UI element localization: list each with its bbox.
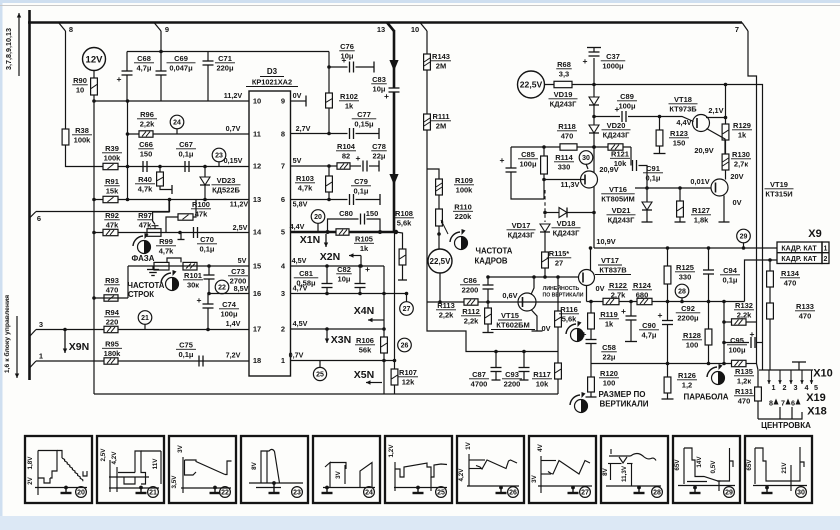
label C74	[219, 300, 239, 318]
power node 22,5V kadr	[428, 249, 452, 273]
svg-text:1k: 1k	[360, 244, 369, 253]
wire pin4 row	[291, 265, 385, 267]
svg-text:15k: 15k	[106, 186, 119, 195]
wire VT16 collector	[593, 147, 595, 173]
svg-text:2,2k: 2,2k	[737, 310, 752, 319]
wire rail 363	[591, 362, 732, 366]
label R90	[72, 76, 88, 94]
svg-text:1k: 1k	[345, 101, 354, 110]
voltage 11,3V	[561, 180, 580, 189]
label C73	[228, 267, 248, 285]
svg-text:2V: 2V	[27, 476, 34, 485]
power node 22,5V top	[518, 71, 545, 98]
svg-text:VT17: VT17	[601, 256, 619, 265]
svg-text:1: 1	[772, 383, 776, 392]
svg-text:14V: 14V	[696, 456, 703, 468]
svg-text:КР1021ХА2: КР1021ХА2	[252, 78, 292, 87]
node pin 3	[30, 320, 44, 337]
waveform point 29	[737, 229, 751, 248]
voltage 4,4V	[676, 118, 691, 127]
resistor R130	[722, 154, 729, 170]
svg-text:R109: R109	[455, 176, 473, 185]
resistor R91	[103, 196, 118, 202]
potentiometer R110	[436, 209, 448, 234]
svg-text:C75: C75	[179, 341, 193, 350]
wire base node rail	[635, 186, 711, 190]
svg-text:7: 7	[735, 25, 739, 34]
svg-text:+: +	[197, 295, 202, 305]
wire R113 row	[427, 300, 464, 304]
wire R110-circle	[437, 226, 441, 249]
svg-text:2: 2	[281, 325, 285, 334]
label X5N	[354, 369, 374, 381]
label VD20	[602, 121, 631, 139]
capacitor C75	[199, 356, 203, 367]
voltage 20V	[730, 172, 743, 181]
diode VD18	[543, 208, 594, 218]
capacitor C90	[621, 302, 637, 342]
resistor R123	[654, 117, 666, 154]
svg-text:100k: 100k	[456, 185, 474, 194]
svg-text:VD19: VD19	[554, 90, 573, 99]
connector X19 pins	[769, 399, 801, 408]
oscillogram 28	[601, 436, 668, 503]
svg-text:VD17: VD17	[512, 221, 531, 230]
svg-text:1,8V: 1,8V	[27, 456, 34, 470]
svg-text:R99: R99	[159, 237, 173, 246]
svg-text:R114: R114	[555, 153, 573, 162]
label PARABOLA	[683, 393, 728, 402]
svg-text:R106: R106	[356, 336, 374, 345]
oscillogram 21	[97, 436, 164, 503]
label C94	[720, 266, 740, 284]
potentiometer R97	[147, 200, 169, 237]
svg-text:R127: R127	[692, 206, 710, 215]
svg-text:2М: 2М	[436, 121, 446, 130]
node pin 13	[377, 23, 394, 35]
label lineinost	[542, 284, 583, 299]
label X4N	[354, 305, 374, 317]
capacitor C74	[197, 294, 214, 332]
svg-text:C91: C91	[646, 164, 660, 173]
svg-text:+: +	[621, 306, 626, 316]
svg-text:65V: 65V	[674, 459, 681, 471]
svg-text:1,8k: 1,8k	[694, 215, 709, 224]
svg-text:C86: C86	[463, 276, 477, 285]
svg-text:25: 25	[316, 372, 324, 379]
svg-text:ЛИНЕЙНОСТЬ: ЛИНЕЙНОСТЬ	[543, 284, 580, 292]
svg-text:2200: 2200	[504, 379, 521, 388]
svg-text:КД243Г: КД243Г	[550, 99, 577, 108]
oscillogram 23	[241, 436, 308, 503]
svg-text:C81: C81	[299, 269, 313, 278]
svg-text:29: 29	[740, 234, 748, 241]
svg-text:0,1μ: 0,1μ	[178, 149, 193, 158]
svg-text:C90: C90	[642, 321, 656, 330]
wire thick vertical bus	[28, 10, 31, 380]
svg-text:4700: 4700	[471, 379, 488, 388]
svg-text:4,7k: 4,7k	[159, 246, 174, 255]
svg-text:VT18: VT18	[674, 95, 692, 104]
svg-text:100: 100	[686, 340, 699, 349]
svg-text:0,1μ: 0,1μ	[199, 244, 214, 253]
svg-text:R120: R120	[600, 369, 618, 378]
label R123	[669, 129, 689, 147]
svg-text:100μ: 100μ	[728, 345, 746, 354]
resistor R40	[157, 167, 172, 195]
label R94	[104, 308, 120, 326]
svg-text:C66: C66	[139, 140, 153, 149]
label C95	[727, 336, 747, 354]
label C71	[215, 54, 235, 72]
wire pin2 row	[291, 327, 385, 331]
wire bottom rail	[94, 393, 558, 395]
svg-text:21: 21	[149, 490, 157, 497]
svg-text:R117: R117	[533, 370, 551, 379]
svg-text:4,2V: 4,2V	[111, 451, 118, 465]
svg-text:C92: C92	[681, 304, 695, 313]
svg-text:C37: C37	[606, 52, 620, 61]
resistor R116	[555, 277, 562, 352]
capacitor C94	[703, 248, 714, 302]
label R92	[104, 211, 120, 229]
svg-text:R123: R123	[670, 129, 688, 138]
svg-text:C85: C85	[521, 150, 535, 159]
voltage 0V vt19	[732, 198, 741, 207]
capacitor C81	[322, 264, 333, 295]
svg-text:2,7V: 2,7V	[296, 124, 311, 133]
svg-text:330: 330	[558, 162, 571, 171]
transistor VT18	[693, 115, 710, 132]
label RAZMER	[599, 390, 649, 409]
svg-text:R122: R122	[609, 281, 627, 290]
wire left feeder	[93, 101, 95, 394]
svg-text:680: 680	[636, 290, 649, 299]
svg-text:R97: R97	[138, 211, 152, 220]
IC right voltages	[289, 91, 311, 360]
IC D3 box	[249, 91, 291, 376]
label R129	[732, 121, 752, 139]
svg-text:2,1V: 2,1V	[708, 106, 723, 115]
label FAZA	[132, 254, 155, 263]
capacitor C91	[631, 147, 647, 188]
node pin 1	[30, 352, 44, 369]
svg-text:0,047μ: 0,047μ	[169, 63, 193, 72]
svg-text:5: 5	[814, 383, 818, 392]
wire R90 down	[92, 95, 96, 103]
svg-text:ФАЗА: ФАЗА	[132, 254, 155, 263]
adjust symbol linearity	[566, 321, 584, 342]
svg-text:X2N: X2N	[320, 251, 340, 263]
capacitor C82	[355, 264, 371, 295]
svg-text:R135: R135	[735, 367, 753, 376]
connector X9N arrow	[63, 330, 67, 354]
power node 12V	[83, 48, 106, 71]
label R124	[632, 281, 652, 299]
svg-text:12V: 12V	[86, 55, 104, 66]
label X9	[808, 228, 821, 240]
svg-text:КАДР. КАТ: КАДР. КАТ	[781, 256, 817, 263]
wire pin8 drop	[65, 31, 67, 129]
svg-text:30к: 30к	[187, 280, 199, 289]
wire lower loop	[427, 302, 558, 353]
node pin 6	[30, 212, 42, 224]
label VD19	[549, 90, 578, 108]
svg-text:X1N: X1N	[300, 234, 320, 246]
svg-text:1: 1	[281, 356, 285, 365]
resistor R93	[104, 295, 118, 301]
svg-text:C67: C67	[179, 140, 193, 149]
wire VT15 emitter	[531, 310, 543, 332]
capacitor C37	[583, 48, 601, 87]
wire VT16 base	[544, 179, 585, 181]
svg-text:ПАРАБОЛА: ПАРАБОЛА	[683, 393, 728, 402]
label VT19	[765, 180, 794, 198]
label R132	[734, 301, 754, 319]
wire 10,9V rail	[594, 246, 777, 250]
wire R109 branch	[427, 169, 439, 179]
svg-text:C89: C89	[620, 92, 634, 101]
svg-text:4,7μ: 4,7μ	[136, 63, 151, 72]
diode VD20	[589, 115, 599, 147]
label R115	[547, 249, 572, 267]
svg-text:2: 2	[824, 256, 828, 263]
transistor VT17	[579, 270, 595, 286]
capacitor C67	[185, 161, 189, 172]
svg-text:0V: 0V	[541, 324, 550, 333]
capacitor C66	[143, 161, 147, 172]
svg-text:22: 22	[218, 285, 226, 292]
label R127	[691, 206, 711, 224]
resistor R38	[62, 129, 69, 145]
label R107	[398, 368, 418, 386]
label R130	[731, 150, 751, 168]
label R114	[554, 153, 574, 171]
svg-text:470: 470	[106, 285, 119, 294]
svg-text:VD21: VD21	[612, 206, 631, 215]
waveform point 30	[579, 151, 593, 169]
resistor R95	[104, 358, 118, 364]
svg-text:D3: D3	[267, 67, 278, 76]
svg-text:4: 4	[805, 383, 809, 392]
label R96	[137, 110, 157, 128]
label VD17	[507, 221, 536, 239]
svg-text:КТ315И: КТ315И	[765, 189, 792, 198]
svg-text:2,7к: 2,7к	[734, 159, 748, 168]
svg-text:R110: R110	[454, 203, 472, 212]
IC left voltages	[224, 91, 249, 360]
svg-text:VD23: VD23	[217, 176, 236, 185]
svg-text:СТРОК: СТРОК	[128, 290, 154, 299]
svg-text:R96: R96	[140, 110, 154, 119]
label R126	[677, 371, 697, 389]
svg-text:11,2V: 11,2V	[224, 91, 243, 100]
label VD18	[552, 219, 581, 237]
svg-text:8: 8	[769, 399, 773, 408]
svg-text:4,7k: 4,7k	[138, 184, 153, 193]
label R120	[599, 369, 619, 387]
svg-text:X9: X9	[808, 228, 821, 240]
oscillogram 22	[169, 436, 236, 503]
svg-text:+: +	[500, 155, 505, 165]
wire VT16 emitter	[592, 187, 596, 249]
svg-text:R104: R104	[337, 142, 356, 151]
svg-text:4,7k: 4,7k	[298, 183, 313, 192]
svg-text:C87: C87	[472, 370, 486, 379]
svg-text:ПО ВЕРТИКАЛИ: ПО ВЕРТИКАЛИ	[542, 293, 583, 299]
label R143	[431, 52, 451, 70]
adjust symbol size	[570, 392, 588, 413]
label R104	[336, 142, 356, 160]
svg-text:16: 16	[253, 289, 261, 298]
svg-text:11,3V: 11,3V	[561, 180, 580, 189]
svg-text:ЧАСТОТА: ЧАСТОТА	[128, 281, 165, 290]
capacitor C83	[384, 88, 399, 101]
svg-text:0,1μ: 0,1μ	[645, 173, 660, 182]
waveform point 27	[400, 294, 414, 316]
ground symbol X10	[792, 362, 806, 370]
svg-text:C77: C77	[357, 110, 371, 119]
svg-text:C74: C74	[222, 300, 237, 309]
capacitor C79	[350, 194, 381, 205]
svg-text:КТ973Б: КТ973Б	[669, 104, 697, 113]
label R109	[454, 176, 474, 194]
resistor R132	[724, 319, 757, 325]
resistor R108	[396, 232, 407, 280]
svg-text:2: 2	[783, 383, 787, 392]
svg-text:30: 30	[797, 490, 805, 497]
svg-text:R118: R118	[558, 122, 576, 131]
svg-text:R129: R129	[733, 121, 751, 130]
label X3N	[331, 334, 351, 346]
svg-text:65V: 65V	[746, 459, 753, 471]
arrow bottom-left margin	[15, 316, 19, 378]
svg-text:470: 470	[784, 278, 797, 287]
wire pin9 drop	[159, 31, 163, 53]
svg-text:R95: R95	[105, 340, 119, 349]
resistor R122	[603, 298, 619, 304]
svg-text:220k: 220k	[455, 212, 473, 221]
wire 12V-R90	[93, 71, 95, 79]
wire pin9 stub	[291, 96, 307, 107]
resistor R105	[336, 229, 349, 235]
label R101	[183, 271, 203, 289]
svg-text:C80: C80	[339, 209, 353, 218]
wire 6 line	[36, 200, 170, 212]
svg-text:VD20: VD20	[607, 121, 626, 130]
svg-text:2200μ: 2200μ	[677, 313, 699, 322]
svg-text:27: 27	[555, 258, 563, 267]
resistor R135	[732, 360, 757, 366]
svg-text:11,2V: 11,2V	[230, 199, 249, 208]
svg-text:X3N: X3N	[331, 334, 351, 346]
label R38	[72, 126, 92, 144]
wire pin3 row	[291, 292, 409, 296]
resistor R94	[104, 326, 118, 332]
resistor R90	[91, 78, 98, 95]
transistor VT16	[581, 171, 598, 188]
wire 22,5V stub	[439, 273, 441, 302]
label VT18	[669, 95, 698, 113]
svg-text:КД522Б: КД522Б	[212, 185, 240, 194]
voltage 20,9V r	[694, 146, 713, 155]
svg-text:3,3: 3,3	[559, 69, 569, 78]
voltage 0V vt15	[541, 324, 550, 333]
label D3	[246, 67, 298, 87]
wire pin11 row	[126, 132, 249, 136]
svg-text:R113: R113	[437, 301, 455, 310]
resistor R109	[436, 179, 443, 195]
label R119	[599, 310, 619, 328]
resistor R124	[637, 298, 652, 304]
label R110	[453, 203, 473, 221]
svg-text:1,2: 1,2	[682, 380, 692, 389]
svg-text:7,2V: 7,2V	[226, 351, 241, 360]
svg-text:3V: 3V	[177, 444, 184, 453]
net label 3,7,8,9,10,13	[4, 28, 13, 70]
svg-text:6: 6	[791, 399, 795, 408]
svg-text:0,1μ: 0,1μ	[722, 275, 737, 284]
label C83	[371, 75, 387, 93]
potentiometer R101	[183, 262, 197, 270]
wire pin15 row	[128, 265, 249, 267]
svg-text:R111: R111	[432, 112, 449, 121]
svg-text:VD18: VD18	[557, 219, 576, 228]
net label 1,6 k bloku	[3, 295, 11, 373]
diode VD23	[200, 167, 210, 200]
svg-text:0,15V: 0,15V	[224, 156, 243, 165]
resistor R113	[464, 299, 478, 305]
svg-text:17: 17	[253, 325, 261, 334]
oscillogram 30	[745, 436, 812, 503]
svg-text:8V: 8V	[251, 461, 258, 470]
svg-text:C94: C94	[723, 266, 738, 275]
svg-text:+: +	[356, 153, 361, 163]
resistor R104	[337, 163, 350, 169]
label R102	[339, 92, 359, 110]
resistor R129	[722, 118, 729, 141]
waveform point 28	[675, 284, 689, 301]
transistor VT19	[711, 179, 728, 196]
wire R109-R110	[438, 195, 440, 209]
svg-text:X18: X18	[807, 406, 827, 418]
resistor R134	[767, 260, 774, 287]
svg-text:47k: 47k	[139, 220, 152, 229]
label C82	[336, 265, 352, 283]
label R134	[780, 269, 800, 287]
svg-text:9: 9	[165, 25, 169, 34]
resistor R92	[103, 229, 118, 235]
waveform point 24	[170, 115, 184, 134]
wire bold line from 13	[389, 30, 398, 232]
svg-text:100μ: 100μ	[519, 159, 537, 168]
svg-text:C78: C78	[372, 142, 386, 151]
svg-text:1000μ: 1000μ	[602, 61, 624, 70]
svg-text:R105: R105	[355, 235, 373, 244]
svg-text:20V: 20V	[730, 172, 743, 181]
capacitor C89	[594, 104, 661, 122]
svg-text:0,15μ: 0,15μ	[354, 119, 374, 128]
wire pin7 drop	[748, 31, 757, 322]
svg-text:1,2V: 1,2V	[388, 444, 395, 458]
label VT16	[601, 185, 635, 203]
capacitor C93	[519, 352, 530, 381]
wire right vertical rail	[545, 85, 763, 371]
IC pin numbers	[253, 97, 286, 366]
label X2N	[320, 251, 363, 268]
svg-text:КАДРОВ: КАДРОВ	[474, 257, 507, 266]
svg-text:R90: R90	[73, 76, 87, 85]
